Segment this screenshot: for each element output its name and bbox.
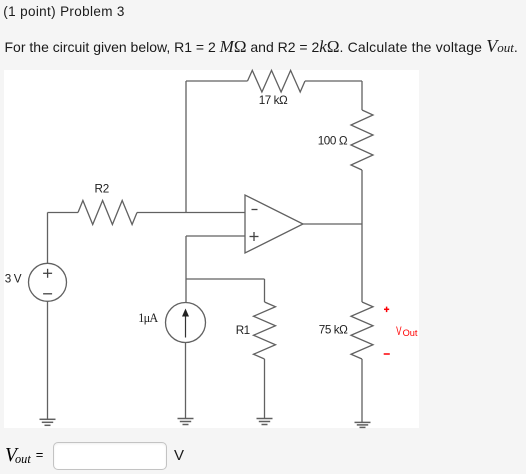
svg-text:Out: Out [403, 328, 418, 338]
svg-text:V: V [396, 324, 402, 338]
svg-text:17 kΩ: 17 kΩ [259, 94, 288, 107]
svg-text:R2: R2 [95, 182, 110, 195]
svg-text:1μA: 1μA [138, 311, 158, 325]
svg-text:75 kΩ: 75 kΩ [319, 324, 348, 337]
svg-text:R1: R1 [236, 324, 250, 337]
svg-text:100 Ω: 100 Ω [318, 134, 348, 147]
svg-text:3 V: 3 V [5, 273, 22, 286]
